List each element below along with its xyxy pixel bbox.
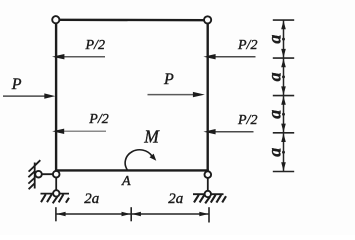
load P left: arrowhead: [44, 93, 55, 98]
dimension bottom: tick right: [208, 207, 210, 222]
frame top beam: [58, 19, 206, 22]
load P/2 bottom-right: shaft: [213, 131, 254, 133]
hinge circle top-right: [204, 16, 211, 23]
load P/2 bottom-left: shaft: [56, 130, 106, 132]
dimension right: mid dots: [282, 38, 285, 154]
dimension bottom: line: [56, 213, 209, 215]
frame right column: [206, 23, 208, 172]
svg-text:P/2: P/2: [237, 113, 257, 128]
support bottom-left: vertical link: [55, 174, 57, 193]
support bottom-left: ground line: [41, 193, 70, 195]
dimension right: line: [283, 20, 285, 171]
svg-text:P/2: P/2: [88, 112, 108, 127]
svg-text:A: A: [121, 174, 131, 189]
dimension bottom: arrowheads: [56, 212, 208, 217]
frame bottom beam: [55, 169, 209, 171]
load P/2 bottom-right: arrowhead: [203, 129, 215, 134]
svg-text:a: a: [265, 72, 285, 81]
support bottom-left: hinge circle at corner: [53, 171, 60, 178]
support bottom-right: vertical link: [207, 175, 209, 195]
support bottom-left: horizontal link: [39, 173, 57, 175]
support bottom-left: hinge circle at wall: [35, 171, 42, 178]
load P/2 top-right: shaft: [213, 56, 256, 58]
svg-text:P/2: P/2: [237, 38, 257, 53]
dimension bottom: tick middle: [130, 207, 132, 221]
load P/2 bottom-left: arrowhead: [52, 129, 64, 134]
support bottom-left: hinge circle at ground: [53, 190, 59, 196]
load P inner right: shaft: [148, 94, 195, 96]
support bottom-right: ground hatching: [194, 195, 226, 204]
svg-text:2a: 2a: [84, 191, 99, 207]
dimension bottom: tick left: [55, 207, 57, 221]
hinge circle top-left: [52, 16, 59, 23]
svg-text:P/2: P/2: [85, 38, 105, 53]
svg-text:a: a: [265, 110, 285, 119]
support bottom-left: wall hatching: [28, 160, 40, 189]
load P/2 top-left: arrowhead: [52, 54, 64, 59]
support bottom-right: hinge circle at corner: [205, 171, 212, 178]
moment M: arrowhead: [150, 154, 157, 161]
svg-text:P: P: [163, 71, 174, 88]
load P/2 top-left: shaft: [56, 56, 105, 58]
svg-text:a: a: [265, 35, 285, 44]
frame left column: [55, 23, 57, 172]
support bottom-right: hinge circle at ground: [205, 191, 211, 197]
svg-text:M: M: [143, 127, 160, 147]
load P left: shaft: [3, 95, 46, 97]
dimension right: ticks: [273, 20, 294, 171]
support bottom-left: ground hatching: [41, 194, 69, 203]
dimension right: arrowheads: [281, 21, 286, 171]
svg-text:P: P: [11, 76, 22, 93]
load P/2 top-right: arrowhead: [203, 54, 215, 59]
svg-text:2a: 2a: [168, 191, 183, 207]
support bottom-right: ground line: [193, 193, 224, 195]
moment M: arc: [125, 150, 152, 170]
svg-text:a: a: [265, 148, 285, 157]
load P inner right: arrowhead: [193, 92, 205, 97]
